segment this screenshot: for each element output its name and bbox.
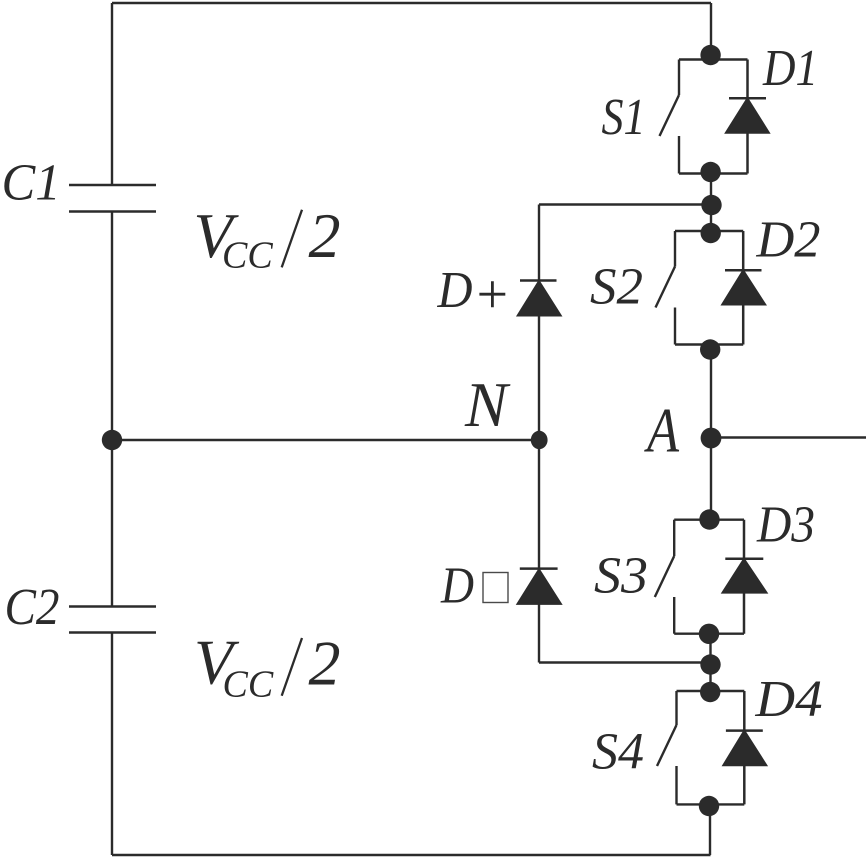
svg-text:C2: C2 <box>5 579 60 636</box>
svg-text:D3: D3 <box>756 497 815 554</box>
diode D- (clamp lower) <box>518 569 560 604</box>
svg-text:N: N <box>464 369 511 440</box>
switch S4 <box>657 691 744 804</box>
node A dot <box>701 428 722 449</box>
svg-text:C1: C1 <box>2 155 61 212</box>
label D+ <box>437 262 506 319</box>
wire bottom bus <box>112 854 711 856</box>
wire neutral horizontal (left node to N) <box>112 439 539 441</box>
switch S3 <box>655 520 744 634</box>
wire right leg segment S1-S2 <box>710 174 712 232</box>
node N dot <box>531 431 548 449</box>
svg-text:CC: CC <box>222 235 273 277</box>
node junction clamp bottom <box>700 654 720 674</box>
wire clamp branch vertical <box>538 205 540 663</box>
svg-text:CC: CC <box>223 664 274 706</box>
svg-text:2: 2 <box>309 628 341 699</box>
diode D+ (clamp upper) <box>518 281 560 316</box>
svg-text:2: 2 <box>309 200 341 271</box>
diode D2 <box>723 231 765 345</box>
wire right leg segment S2-S3 <box>710 345 712 520</box>
label Vcc/2 upper <box>194 200 341 277</box>
capacitor C1 <box>69 185 156 212</box>
wire clamp branch bottom connector <box>539 661 711 663</box>
wire right leg segment top <box>710 3 712 60</box>
label Vcc/2 lower <box>194 627 341 706</box>
switch S1 <box>660 60 748 174</box>
diode D3 <box>723 520 766 634</box>
node junction clamp top <box>701 195 721 215</box>
capacitor C2 <box>69 607 156 633</box>
svg-text:D: D <box>440 557 474 614</box>
wire output from node A <box>711 436 866 438</box>
svg-text:A: A <box>644 395 680 466</box>
svg-text:S2: S2 <box>590 259 643 316</box>
node dot S2 bottom <box>700 339 720 359</box>
wire top bus <box>112 2 711 4</box>
svg-text:D: D <box>437 262 473 319</box>
diode D1 <box>726 60 768 174</box>
node dot left bus mid <box>102 430 122 450</box>
node dot S3 top <box>699 509 719 529</box>
wire clamp branch top connector <box>539 203 711 205</box>
wire left bus lower segment <box>111 633 113 856</box>
wire left bus middle segment <box>111 212 113 607</box>
svg-text:S4: S4 <box>592 724 644 781</box>
svg-text:D4: D4 <box>754 671 822 728</box>
wire left bus upper segment <box>111 3 113 185</box>
wire right leg segment S3-S4 <box>709 634 711 692</box>
label D- (tofu box) <box>440 557 508 614</box>
node dot S2 top <box>701 223 721 243</box>
svg-text:S3: S3 <box>594 548 648 605</box>
svg-text:D1: D1 <box>762 40 818 97</box>
node dot S4 top <box>700 682 720 702</box>
svg-text:D2: D2 <box>755 212 820 269</box>
node dot S4 bottom <box>699 796 719 816</box>
switch S2 <box>656 231 744 345</box>
wire right leg segment S4-bottom <box>709 805 711 856</box>
diode D4 <box>724 691 766 804</box>
svg-text:S1: S1 <box>602 89 646 146</box>
node dot S1 top <box>700 45 720 65</box>
node dot S3 bottom <box>699 624 719 644</box>
node dot S1 bottom <box>700 162 720 182</box>
